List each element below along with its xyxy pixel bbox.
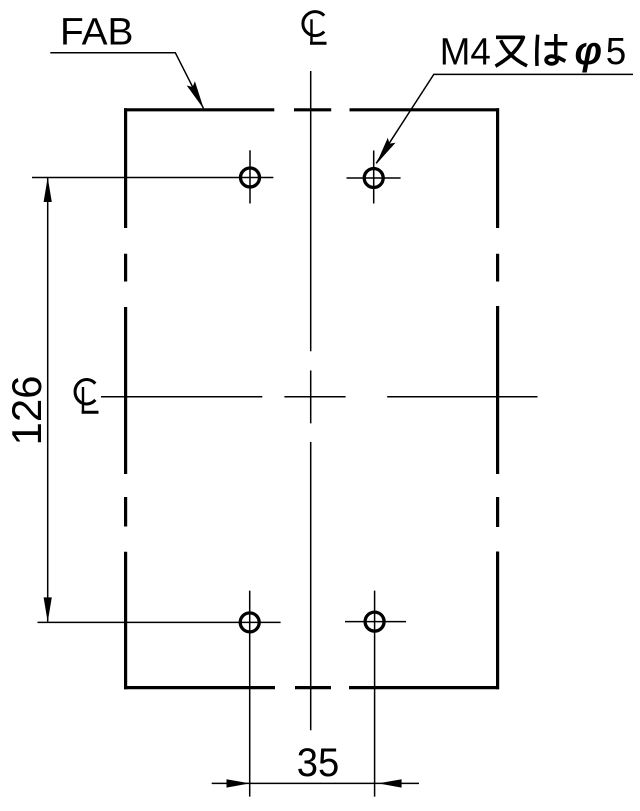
svg-text:M4: M4	[440, 31, 491, 73]
centerline symbol CL left	[75, 380, 98, 413]
FAB leader arrowhead	[187, 81, 204, 109]
centerline symbol CL top	[303, 12, 327, 44]
hole H2 crosshair	[347, 151, 401, 204]
dimension 35 arrow right	[378, 779, 401, 787]
svg-text:φ: φ	[575, 29, 603, 73]
dimension 126 line	[47, 178, 49, 622]
hole H3 vertical crosshair and extension down	[249, 591, 251, 797]
FAB outline left edge (long dashed)	[124, 108, 127, 689]
hole H1 top-left circle	[241, 168, 260, 187]
svg-text:FAB: FAB	[60, 12, 134, 54]
dimension 35 arrow left	[227, 779, 250, 787]
hole H1 vertical crosshair	[249, 150, 251, 203]
FAB leader line	[50, 53, 203, 108]
hiragana HA drawn glyph	[537, 34, 568, 66]
FAB outline right edge (long dashed)	[496, 108, 499, 689]
hole H3 bottom-left circle	[240, 613, 259, 632]
svg-text:35: 35	[297, 741, 340, 785]
horizontal centerline	[101, 396, 538, 398]
dimension 126 extension line bottom	[38, 621, 281, 623]
hole H4 crosshair horizontal	[345, 621, 406, 623]
dimension 126 arrow down	[44, 597, 52, 622]
hole H2 top-right circle	[364, 169, 383, 188]
M4 leader arrowhead	[376, 138, 396, 165]
vertical centerline	[310, 71, 312, 730]
FAB outline top edge (dashed at centerline)	[124, 108, 499, 111]
svg-text:126: 126	[3, 376, 50, 446]
dimension 35 line	[212, 782, 419, 784]
FAB outline bottom edge (dashed at centerline)	[124, 686, 499, 689]
hole H4 vertical crosshair and extension down	[374, 591, 376, 797]
svg-text:5: 5	[606, 31, 627, 73]
dimension 126 arrow up	[44, 177, 52, 202]
hole H4 bottom-right circle	[365, 612, 384, 631]
kanji MATA (or) drawn glyph	[496, 37, 528, 66]
dimension 126 extension line top	[32, 177, 273, 179]
M4 leader line	[376, 74, 633, 163]
